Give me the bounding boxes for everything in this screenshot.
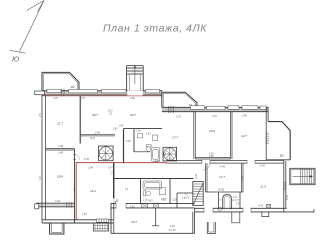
svg-text:1.12: 1.12: [233, 197, 238, 199]
svg-text:Б2: Б2: [280, 154, 284, 158]
svg-text:16.9: 16.9: [209, 129, 215, 133]
sink 2: [159, 188, 166, 195]
window in bottom wall: [97, 219, 109, 222]
pilaster below bottom wall: [232, 212, 240, 223]
svg-text:Ю: Ю: [12, 57, 19, 64]
partition x170: [169, 179, 171, 204]
svg-text:3.44: 3.44: [58, 152, 63, 155]
right exterior wall lower: [284, 160, 286, 212]
wall y178.5: [114, 178, 194, 180]
svg-text:20.7: 20.7: [129, 113, 136, 117]
wc sink box: [218, 208, 221, 211]
external staircase right: [290, 168, 315, 184]
svg-text:(1.17): (1.17): [233, 200, 239, 202]
north arrow: [10, 1, 45, 54]
svg-text:0.97: 0.97: [119, 126, 124, 128]
partition x134: [133, 129, 135, 152]
svg-text:2.59: 2.59: [113, 201, 119, 203]
corridor door gap 2: [247, 160, 255, 164]
bathroom top wall y128.6: [124, 128, 163, 130]
doorway under stair: [127, 90, 142, 95]
balcony bay Т1 (top-middle): [162, 92, 197, 107]
window W4: [146, 90, 160, 93]
svg-text:4.35: 4.35: [84, 158, 89, 161]
porch middle (open rect): [207, 222, 215, 233]
partition x123.5: [123, 129, 125, 163]
partition wall x231 upper: [231, 112, 233, 159]
toilet 2: [144, 191, 151, 196]
svg-text:14.7: 14.7: [241, 134, 247, 138]
svg-text:1.63: 1.63: [146, 134, 151, 136]
svg-text:(4.45): (4.45): [218, 189, 224, 192]
svg-text:2.0: 2.0: [235, 204, 240, 206]
window W1: [47, 89, 61, 92]
svg-text:17.7: 17.7: [219, 175, 225, 179]
lower protrusion walls: [111, 203, 195, 233]
door marks on wall: [73, 155, 76, 160]
exterior wall top-left band: [42, 91, 162, 95]
protrusion divider stub: [152, 208, 159, 226]
svg-text:0.80: 0.80: [242, 176, 245, 181]
svg-text:0.25: 0.25: [126, 141, 131, 143]
svg-text:4.42: 4.42: [260, 165, 265, 168]
interior wall y135: [80, 135, 115, 136]
svg-text:1.65: 1.65: [182, 198, 187, 200]
svg-text:2.42: 2.42: [195, 174, 198, 180]
entry steps hatched: [94, 223, 109, 231]
toilet 3: [223, 195, 232, 210]
bottom exterior wall left section: [42, 220, 113, 223]
balcony bay Б1 (top-left): [42, 72, 79, 90]
small porch right: [262, 212, 269, 217]
left exterior wall: [42, 95, 46, 223]
svg-text:4.06: 4.06: [170, 225, 175, 228]
svg-text:20.9: 20.9: [56, 175, 63, 179]
door arc hall: [183, 193, 189, 199]
svg-text:2.9: 2.9: [108, 114, 113, 116]
window marks on right wall: [266, 133, 269, 144]
svg-text:2.94: 2.94: [94, 131, 100, 134]
porch left (open rect): [50, 223, 64, 234]
svg-text:18.7: 18.7: [131, 220, 137, 224]
svg-text:4.44: 4.44: [220, 165, 225, 168]
interior glazed wall left section: [37, 203, 75, 207]
svg-text:3.97: 3.97: [212, 115, 217, 118]
svg-text:3.47: 3.47: [53, 97, 58, 100]
red re-plan corridor line: [76, 162, 167, 164]
svg-text:5.2: 5.2: [164, 152, 167, 156]
svg-text:21.9: 21.9: [259, 185, 266, 189]
exterior wall top-right band: [162, 107, 268, 111]
svg-text:3.44: 3.44: [55, 200, 60, 203]
svg-text:(6.5): (6.5): [90, 138, 95, 140]
stair arrowhead: [310, 175, 313, 178]
svg-text:0.92: 0.92: [113, 129, 118, 131]
vent square band 2: [154, 204, 159, 208]
window W9: [260, 106, 267, 110]
svg-text:1.95: 1.95: [82, 214, 87, 216]
vertical wall x113.7: [113, 163, 115, 199]
svg-text:2.96: 2.96: [208, 156, 214, 158]
door arc corridor: [203, 163, 210, 170]
door arc left room: [75, 155, 80, 160]
svg-text:4.5: 4.5: [39, 113, 42, 117]
balcony bay Б2 (right): [268, 122, 290, 160]
svg-text:2.7: 2.7: [217, 200, 222, 202]
window W5: [191, 106, 205, 110]
svg-text:2.98: 2.98: [87, 166, 93, 169]
interior wall right of left rooms: [74, 149, 76, 223]
svg-text:16.1: 16.1: [90, 189, 96, 193]
window W2: [69, 90, 98, 93]
corridor door gap 1: [202, 160, 210, 164]
ventilation block 2: [163, 147, 177, 161]
wall flange left: [35, 91, 45, 95]
svg-text:40.7: 40.7: [92, 113, 98, 117]
ventilation block 1: [99, 146, 114, 161]
window marks lower right wall: [283, 183, 287, 191]
partition x140.5: [140, 179, 142, 204]
svg-text:17.7: 17.7: [172, 136, 178, 140]
vent square small: [266, 204, 270, 208]
svg-text:4.43: 4.43: [258, 205, 263, 208]
wall under room 16.9: [195, 158, 230, 159]
svg-text:1.06: 1.06: [136, 131, 141, 133]
red re-plan vertical wall: [75, 163, 77, 220]
door gap bottom 2: [243, 208, 251, 213]
pier ticks between windows: [61, 89, 64, 97]
interior staircase: [193, 182, 203, 206]
svg-text:2.02: 2.02: [175, 116, 181, 119]
svg-text:3.46: 3.46: [58, 145, 63, 148]
svg-text:План 1 этажа, 4ЛК: План 1 этажа, 4ЛК: [103, 23, 207, 35]
bottom band middle section: [111, 203, 195, 208]
svg-text:4.92: 4.92: [130, 205, 135, 208]
svg-text:21.7: 21.7: [56, 122, 63, 126]
bathtub 1: [151, 148, 160, 161]
svg-text:3÷2.16: 3÷2.16: [169, 229, 177, 232]
bottom wall right section: [195, 208, 314, 212]
top staircase: [127, 66, 144, 91]
svg-text:1.72: 1.72: [167, 159, 172, 161]
svg-text:4.47: 4.47: [73, 188, 76, 193]
vent square band 1: [142, 204, 148, 208]
window W3: [102, 90, 127, 93]
sink: [138, 134, 143, 138]
right exterior wall upper: [266, 107, 268, 160]
partition wall x194.5 upper: [194, 112, 196, 159]
bay Б2 bottom wall: [266, 159, 290, 161]
window marks in glazed wall: [67, 202, 72, 207]
red re-plan line under top wall: [42, 95, 162, 97]
door gap bottom 1: [204, 208, 213, 213]
svg-text:3.06: 3.06: [209, 154, 214, 156]
end tab: [35, 204, 39, 209]
interior partition wall x80: [79, 95, 81, 144]
interior wall room 21.7 / 20.9: [46, 149, 75, 150]
svg-text:4.46: 4.46: [130, 97, 135, 100]
hall partition wall: [177, 193, 193, 208]
svg-text:1.47: 1.47: [108, 167, 113, 170]
svg-text:5.49: 5.49: [286, 195, 289, 200]
svg-text:25.8: 25.8: [107, 111, 113, 113]
svg-text:2.85: 2.85: [241, 114, 247, 117]
bathtub 2: [143, 181, 162, 189]
toilet 1: [146, 145, 151, 152]
window W6: [207, 106, 226, 110]
stair direction arrowhead: [134, 65, 136, 68]
door gap in band: [116, 203, 126, 209]
svg-text:3.4: 3.4: [39, 176, 42, 180]
washing machine: [153, 135, 158, 141]
svg-text:Б1: Б1: [71, 85, 75, 89]
center lower walls: [206, 163, 244, 192]
wc room walls: [219, 192, 241, 209]
svg-text:7.17: 7.17: [111, 170, 114, 175]
svg-text:2.11: 2.11: [161, 200, 167, 202]
window W7: [228, 106, 239, 110]
svg-text:1.10: 1.10: [172, 200, 177, 202]
svg-text:0.63: 0.63: [148, 201, 153, 203]
corridor wall right section: [167, 160, 285, 163]
bath block walls: [134, 151, 150, 153]
window ticks left: [169, 106, 174, 113]
window W8: [242, 106, 258, 110]
